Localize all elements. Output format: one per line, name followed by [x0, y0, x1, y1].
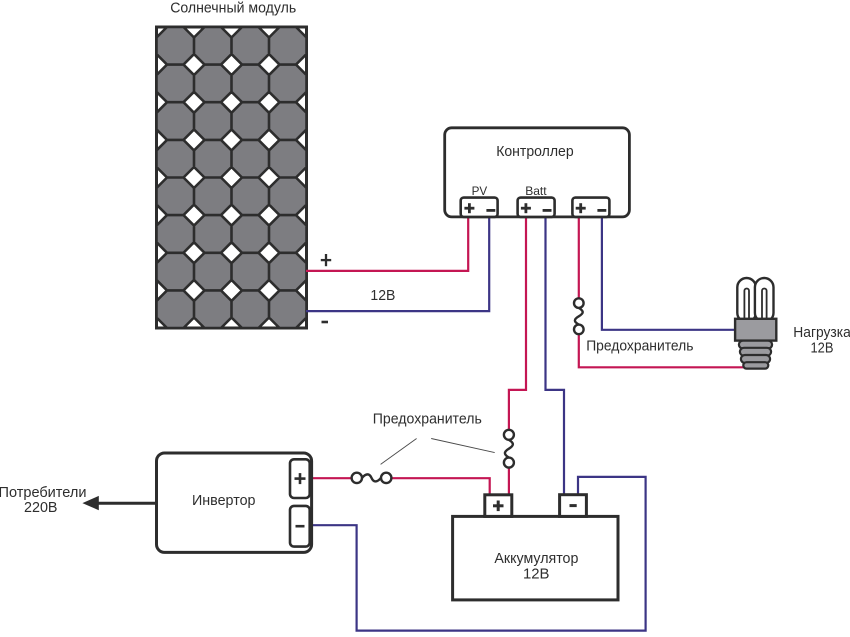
- node + (panel positive): [321, 254, 331, 266]
- wire: inverter - loop to battery - (blue): [305, 477, 646, 631]
- wire: controller Batt+ to battery + (red): [509, 215, 526, 430]
- inverter box: [157, 453, 312, 552]
- battery terminal -: [560, 495, 587, 517]
- lamp holder: [735, 319, 776, 341]
- terminal block Batt: [518, 198, 555, 217]
- svg-text:Контроллер: Контроллер: [496, 143, 574, 160]
- svg-text:Batt: Batt: [525, 184, 547, 198]
- wire: fuse F1 to lamp (red): [579, 334, 752, 367]
- lamp tubes (load): [737, 278, 773, 322]
- solar module PV1 frame: [157, 27, 307, 328]
- svg-text:Солнечный модуль: Солнечный модуль: [170, 0, 296, 17]
- fuse F1 (load circuit): [574, 298, 584, 334]
- pointer line to fuse F2: [431, 439, 495, 453]
- solar module PV1 cells: [157, 27, 307, 328]
- wire: controller load + to fuse F1 (red): [578, 215, 580, 299]
- wire: panel + to controller PV+ (red): [306, 215, 468, 271]
- svg-text:12В: 12В: [811, 339, 834, 356]
- wire: panel - to controller PV- (blue): [306, 215, 489, 311]
- wire: inverter + to fuse F3 (red): [305, 477, 352, 479]
- wire: fuse F3 to battery + (red): [391, 478, 490, 496]
- svg-text:Предохранитель: Предохранитель: [586, 337, 693, 354]
- svg-text:Предохранитель: Предохранитель: [373, 411, 482, 428]
- svg-text:Инвертор: Инвертор: [192, 492, 256, 509]
- svg-text:220В: 220В: [24, 499, 58, 516]
- inverter terminal -: [290, 506, 310, 547]
- svg-text:12В: 12В: [370, 287, 395, 304]
- battery terminal +: [485, 495, 512, 517]
- controller U1 box: [445, 128, 630, 217]
- wire: controller Batt- to battery - (blue): [546, 215, 565, 496]
- terminal block PV: [461, 198, 498, 217]
- terminal block load: [572, 198, 609, 217]
- wire: controller load - to lamp (blue): [602, 215, 737, 330]
- svg-text:PV: PV: [472, 184, 488, 198]
- fuse F3 (inverter circuit): [352, 473, 392, 483]
- pointer line to fuse F3: [381, 439, 417, 465]
- svg-text:12В: 12В: [523, 565, 550, 582]
- arrow to consumers 220V: [82, 496, 156, 510]
- node - (panel negative): [322, 321, 329, 324]
- lamp screw base: [739, 341, 772, 369]
- inverter terminal +: [290, 459, 310, 498]
- fuse F2 (battery circuit): [504, 430, 514, 468]
- battery box: [453, 516, 618, 600]
